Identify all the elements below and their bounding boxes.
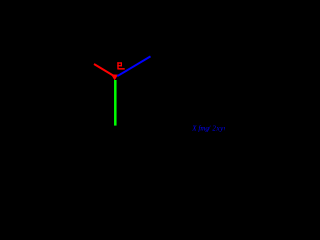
- wire: blue cord from node P to upper-right: [117, 56, 150, 76]
- caption: blue watermark text bottom right: [191, 124, 228, 132]
- arrowhead at node P (red, pointing down): [111, 74, 118, 80]
- wire: red cord from upper-left to node P: [94, 64, 115, 77]
- svg-text:2xyv: 2xyv: [212, 124, 225, 132]
- node P label (blocky pixel P): [117, 62, 124, 69]
- svg-text:X: X: [191, 124, 197, 132]
- wire: green vertical weight line below node P: [114, 80, 117, 126]
